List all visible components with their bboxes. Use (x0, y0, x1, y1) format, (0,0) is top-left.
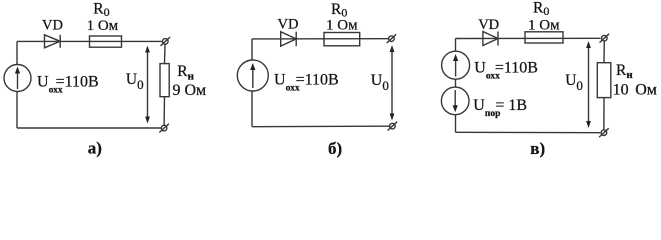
wire right upper vertical (v) (603, 41, 605, 63)
label VD (v) (478, 17, 499, 33)
terminal bottom-right (b) (388, 122, 398, 131)
wire top horizontal (v) (456, 37, 601, 39)
resistor R0 (a) (90, 36, 122, 47)
svg-text:б): б) (328, 139, 342, 158)
label R0 (v) (533, 0, 549, 18)
wire top-left horizontal (a) (17, 40, 163, 42)
wire left vertical (b) (251, 39, 253, 60)
U0 measurement arrow (b) (390, 45, 395, 121)
wire right upper vertical (a) (164, 44, 167, 63)
voltage source U_oxx (v) (442, 51, 470, 79)
label 9 Om value (a) (173, 82, 207, 99)
svg-text:1 Ом: 1 Ом (87, 18, 119, 34)
svg-text:1 Ом: 1 Ом (326, 17, 358, 33)
svg-text:а): а) (88, 139, 102, 158)
svg-text:1 Ом: 1 Ом (528, 17, 560, 33)
resistor R0 (v) (525, 32, 563, 43)
wire left vertical (a) (16, 41, 18, 64)
label VD (b) (278, 17, 299, 33)
terminal top-right (v) (600, 34, 610, 43)
resistor R0 (b) (324, 33, 360, 46)
label VD (a) (42, 18, 63, 34)
wire bottom horizontal (a) (17, 127, 161, 129)
wire bottom horizontal (b) (252, 125, 390, 128)
svg-text:в): в) (530, 139, 545, 158)
caption a) (88, 139, 102, 158)
label U0 (v) (565, 72, 583, 93)
voltage source U_por (v) (441, 87, 469, 115)
U0 measurement arrow (a) (145, 46, 150, 124)
wire left lower vertical (v) (455, 115, 457, 133)
caption v) (530, 139, 545, 158)
label R0 (a) (93, 0, 109, 19)
label U_oxx = 110V (v) (474, 59, 538, 81)
load resistor Rn (a) (160, 64, 169, 97)
U0 measurement arrow (v) (586, 41, 591, 128)
label U_oxx = 110V (a) (37, 73, 99, 95)
terminal top-right (b) (387, 34, 397, 43)
wire right lower vertical (a) (163, 97, 165, 126)
label 1 Om value (b) (326, 17, 358, 33)
svg-text:10 Ом: 10 Ом (613, 82, 657, 99)
diode VD (b) (281, 32, 297, 46)
wire left lower vertical (b) (251, 91, 253, 127)
label U0 (b) (371, 72, 389, 93)
wire left lower vertical (a) (16, 92, 18, 129)
label U0 (a) (126, 71, 144, 92)
svg-text:VD: VD (42, 18, 63, 34)
svg-text:9 Ом: 9 Ом (173, 82, 207, 99)
svg-text:VD: VD (478, 17, 499, 33)
wire top horizontal (b) (252, 38, 389, 40)
label R0 (b) (331, 1, 347, 20)
label U_oxx = 110V (b) (274, 71, 339, 93)
terminal bottom-right (v) (599, 128, 609, 137)
diode VD (v) (483, 32, 498, 46)
wire between sources (v) (455, 79, 457, 87)
label 10 Om value (v) (613, 82, 657, 99)
label Rn (v) (616, 62, 633, 81)
terminal bottom-right (a) (159, 124, 169, 133)
terminal top-right (a) (161, 37, 171, 46)
caption b) (328, 139, 342, 158)
voltage source U_oxx (b) (237, 60, 268, 91)
label 1 Om value (a) (87, 18, 119, 34)
label Rn (a) (177, 63, 194, 83)
svg-text:VD: VD (278, 17, 299, 33)
load resistor Rn (v) (597, 63, 611, 98)
wire left upper vertical (v) (455, 39, 457, 52)
wire bottom horizontal (v) (456, 131, 601, 133)
wire right lower vertical (v) (603, 98, 605, 130)
label 1 Om value (v) (528, 17, 560, 33)
voltage source U_oxx (a) (4, 65, 31, 92)
diode VD (a) (45, 35, 61, 48)
label U_por = 1V (v) (473, 97, 527, 119)
